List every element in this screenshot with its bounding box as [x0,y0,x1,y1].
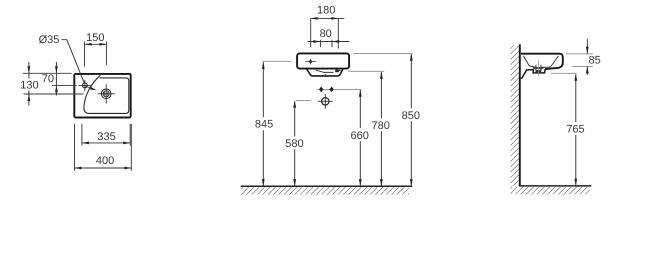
svg-text:Ø35: Ø35 [39,34,60,46]
drain grid detail [105,92,108,95]
bowl outer outline [307,69,343,76]
ext line underside level [348,70,384,72]
dim 335 line [82,142,130,144]
svg-text:765: 765 [566,123,584,135]
dim 660 line [359,90,361,186]
dim 765 line [575,74,577,186]
basin front apron [297,53,349,68]
basin inner outline [84,75,129,113]
floor hatching side view [511,187,590,194]
svg-text:400: 400 [96,155,114,167]
supply point left [319,87,323,93]
floor line centre view [241,185,413,187]
ext line rim level [353,52,413,54]
dim 80 line with outside arrows [308,41,350,43]
dim 780 line [380,72,382,186]
supply point right [329,87,333,93]
svg-text:580: 580 [285,138,303,150]
dim 130 line [28,62,30,106]
tap hole Ø35 [82,83,87,88]
floor line side view [519,185,591,187]
floor hatching centre view [241,187,409,194]
svg-text:85: 85 [589,54,601,66]
svg-text:80: 80 [320,28,332,40]
dim 70 line [55,62,57,96]
ext line basin underside [551,72,577,74]
svg-text:150: 150 [86,32,104,44]
dim 335 extension lines [82,124,130,146]
drain outer circle [101,89,111,99]
basin outer rect [74,74,130,118]
svg-text:780: 780 [372,120,390,132]
wall hatching [511,46,519,186]
drain crosshair [98,84,115,103]
dim 180 extension lines [311,18,339,48]
leader line Ø35 [61,40,84,84]
tap hole crosshair [79,80,92,92]
ext line drain level [24,93,84,95]
svg-text:70: 70 [42,73,54,85]
dim 845 line [262,62,264,186]
basin profile top rim and front [521,54,563,69]
drain fitting section [536,65,541,72]
basin underside and drain boss [521,69,545,78]
dim 580 line [294,101,296,186]
svg-text:180: 180 [317,5,335,17]
wall line [519,44,521,186]
ext line waste level [296,100,311,102]
ext line basin top level [23,72,72,74]
bowl interior line [316,70,334,72]
dim 80 extension ticks [320,40,332,48]
ext line tap level [52,84,77,86]
svg-text:845: 845 [255,119,273,131]
ext line tap level [262,60,291,62]
dim 400 line [75,167,132,169]
svg-text:335: 335 [97,131,115,143]
ext line apron bottom side [572,65,593,67]
centre tick [324,74,326,77]
bowl interior back slant [523,56,534,67]
svg-text:660: 660 [351,130,369,142]
drain inner circle [103,91,109,97]
bowl interior front slant [542,56,559,67]
waste outlet cross [322,98,329,105]
supply reference line [317,88,362,90]
dim 150 line [85,43,107,45]
dim 850 line [410,54,412,186]
svg-text:130: 130 [20,79,38,91]
drain plug front [335,70,339,73]
dim 150 extension lines [85,42,107,67]
ext line rim level side [566,53,593,55]
dim 85 line with outside arrows [586,39,588,75]
leader arrow to bowl edge [85,86,92,89]
svg-text:850: 850 [402,110,420,122]
tap hole marker [308,60,313,64]
drain centreline [537,60,539,76]
dim 180 line [311,17,345,19]
dim 400 extension lines [75,124,132,171]
